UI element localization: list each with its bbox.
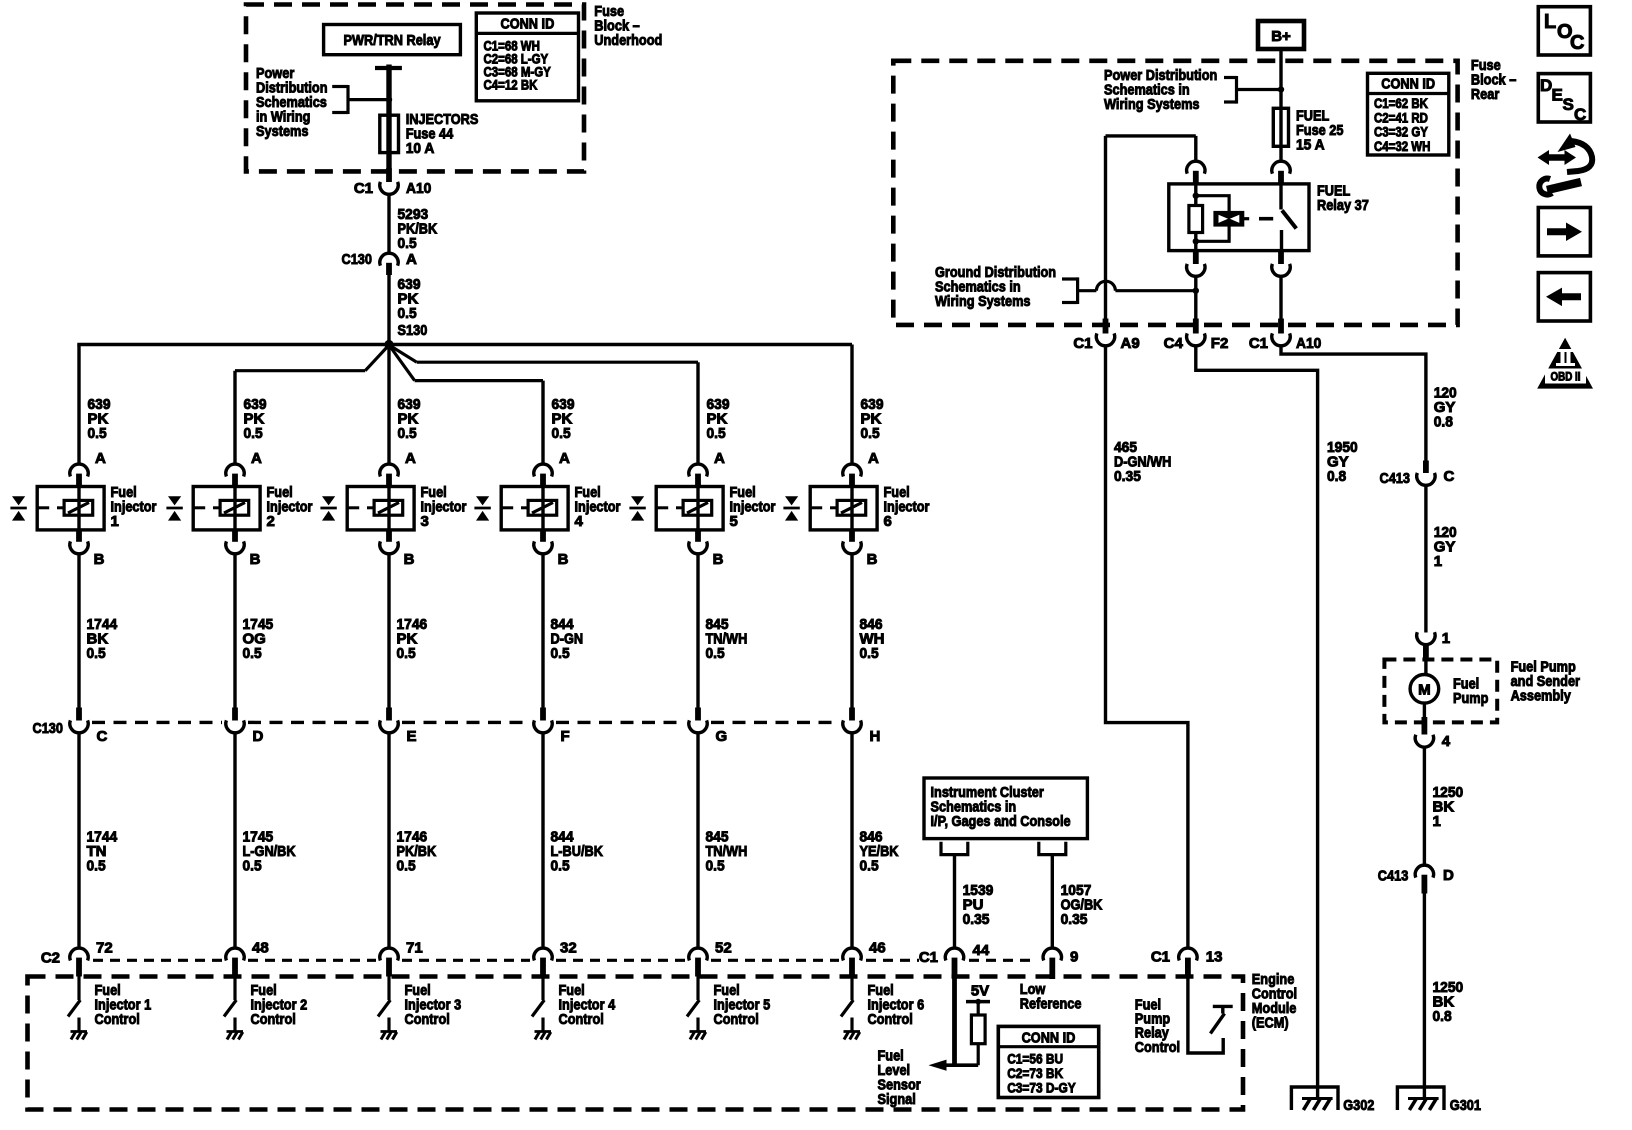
svg-text:S: S [1563, 95, 1574, 114]
svg-text:C413: C413 [1378, 868, 1409, 885]
svg-text:15 A: 15 A [1296, 137, 1325, 154]
svg-text:13: 13 [1206, 949, 1223, 966]
svg-text:Rear: Rear [1471, 86, 1500, 103]
svg-text:B: B [867, 551, 878, 568]
svg-text:0.35: 0.35 [1061, 911, 1088, 928]
svg-text:Relay 37: Relay 37 [1317, 197, 1369, 214]
svg-text:A: A [714, 450, 725, 467]
svg-text:0.5: 0.5 [860, 858, 879, 875]
svg-text:1: 1 [1433, 813, 1441, 830]
svg-text:0.5: 0.5 [397, 858, 416, 875]
svg-text:A10: A10 [1296, 335, 1321, 352]
svg-text:5V: 5V [971, 983, 989, 1000]
svg-text:C: C [1570, 32, 1584, 54]
svg-text:S130: S130 [398, 322, 428, 339]
svg-text:D: D [253, 728, 264, 745]
svg-text:(ECM): (ECM) [1252, 1015, 1289, 1032]
svg-text:0.5: 0.5 [397, 645, 416, 662]
svg-text:C2: C2 [41, 950, 60, 967]
svg-text:1: 1 [1442, 630, 1450, 647]
svg-text:B: B [713, 551, 724, 568]
svg-text:71: 71 [406, 940, 423, 957]
svg-text:E: E [1552, 86, 1563, 105]
svg-text:F: F [561, 728, 570, 745]
svg-text:0.5: 0.5 [706, 645, 725, 662]
svg-text:CONN ID: CONN ID [1022, 1030, 1076, 1047]
svg-text:C1=62 BK: C1=62 BK [1374, 96, 1428, 111]
svg-text:C3=32 GY: C3=32 GY [1374, 125, 1428, 140]
svg-text:0.5: 0.5 [243, 858, 262, 875]
svg-text:C413: C413 [1380, 470, 1411, 487]
svg-text:0.5: 0.5 [243, 645, 262, 662]
svg-text:C1: C1 [354, 180, 373, 197]
svg-text:Control: Control [868, 1011, 913, 1028]
svg-text:C1: C1 [1249, 335, 1268, 352]
svg-text:CONN ID: CONN ID [1381, 76, 1435, 93]
svg-text:Wiring Systems: Wiring Systems [935, 293, 1031, 310]
svg-text:9: 9 [1070, 949, 1078, 966]
svg-text:0.8: 0.8 [1327, 468, 1346, 485]
svg-text:0.5: 0.5 [398, 425, 417, 442]
svg-text:B+: B+ [1271, 28, 1291, 45]
svg-text:52: 52 [715, 940, 732, 957]
svg-text:0.5: 0.5 [861, 425, 880, 442]
svg-text:PWR/TRN Relay: PWR/TRN Relay [343, 32, 441, 49]
svg-text:B: B [404, 551, 415, 568]
svg-text:A9: A9 [1121, 335, 1140, 352]
svg-text:0.5: 0.5 [398, 305, 417, 322]
svg-text:B: B [558, 551, 569, 568]
svg-text:0.5: 0.5 [87, 858, 106, 875]
svg-text:G301: G301 [1450, 1097, 1481, 1114]
svg-text:G: G [716, 728, 728, 745]
svg-text:B: B [94, 551, 105, 568]
svg-text:Assembly: Assembly [1511, 688, 1572, 705]
svg-text:10 A: 10 A [406, 140, 435, 157]
svg-text:C4=32 WH: C4=32 WH [1374, 139, 1430, 154]
svg-text:Control: Control [95, 1011, 140, 1028]
svg-text:0.35: 0.35 [1114, 468, 1141, 485]
svg-text:0.5: 0.5 [87, 645, 106, 662]
svg-text:5: 5 [730, 513, 738, 530]
svg-text:0.5: 0.5 [707, 425, 726, 442]
svg-text:A: A [559, 450, 570, 467]
svg-text:A: A [95, 450, 106, 467]
svg-text:0.5: 0.5 [88, 425, 107, 442]
svg-text:0.5: 0.5 [551, 858, 570, 875]
svg-text:44: 44 [973, 942, 990, 959]
svg-text:1: 1 [111, 513, 119, 530]
svg-text:0.35: 0.35 [963, 911, 990, 928]
svg-text:0.5: 0.5 [551, 645, 570, 662]
svg-text:0.8: 0.8 [1433, 1008, 1452, 1025]
svg-text:D: D [1540, 76, 1552, 95]
svg-text:C130: C130 [342, 251, 373, 268]
svg-text:C3=73 D-GY: C3=73 D-GY [1007, 1079, 1076, 1095]
svg-text:CONN ID: CONN ID [501, 16, 555, 33]
svg-text:B: B [250, 551, 261, 568]
svg-text:C1: C1 [1151, 949, 1170, 966]
svg-text:Control: Control [559, 1011, 604, 1028]
svg-text:Systems: Systems [256, 123, 309, 140]
svg-text:D: D [1443, 867, 1454, 884]
svg-text:0.5: 0.5 [706, 858, 725, 875]
svg-text:0.5: 0.5 [398, 235, 417, 252]
svg-text:C1: C1 [1073, 335, 1092, 352]
svg-text:0.5: 0.5 [552, 425, 571, 442]
svg-text:Control: Control [405, 1011, 450, 1028]
svg-text:C4=12 BK: C4=12 BK [484, 78, 538, 93]
svg-text:3: 3 [421, 513, 429, 530]
svg-text:2: 2 [267, 513, 275, 530]
svg-text:Control: Control [251, 1011, 296, 1028]
svg-text:A10: A10 [406, 180, 431, 197]
svg-text:M: M [1418, 682, 1431, 699]
svg-text:0.8: 0.8 [1434, 414, 1453, 431]
svg-text:A: A [405, 450, 416, 467]
svg-text:G302: G302 [1343, 1097, 1374, 1114]
svg-text:C: C [1574, 105, 1586, 124]
svg-text:C2=41 RD: C2=41 RD [1374, 110, 1428, 125]
svg-text:0.5: 0.5 [860, 645, 879, 662]
svg-text:0.5: 0.5 [244, 425, 263, 442]
svg-text:I/P, Gages and Console: I/P, Gages and Console [931, 813, 1071, 830]
svg-text:H: H [870, 728, 881, 745]
svg-text:4: 4 [1442, 733, 1451, 750]
svg-text:A: A [406, 251, 417, 268]
svg-text:Signal: Signal [878, 1091, 916, 1108]
svg-text:48: 48 [252, 940, 269, 957]
svg-text:4: 4 [575, 513, 584, 530]
svg-text:A: A [251, 450, 262, 467]
svg-text:6: 6 [884, 513, 892, 530]
svg-text:E: E [407, 728, 417, 745]
svg-text:Underhood: Underhood [594, 32, 662, 49]
svg-text:46: 46 [869, 940, 886, 957]
svg-text:Pump: Pump [1453, 690, 1488, 707]
svg-text:1: 1 [1434, 553, 1442, 570]
svg-text:C: C [1444, 468, 1455, 485]
svg-text:72: 72 [96, 940, 113, 957]
svg-text:C4: C4 [1164, 335, 1184, 352]
svg-text:Control: Control [1135, 1039, 1180, 1056]
svg-text:Wiring Systems: Wiring Systems [1104, 96, 1200, 113]
svg-text:F2: F2 [1211, 335, 1229, 352]
svg-text:C: C [97, 728, 108, 745]
svg-text:C130: C130 [33, 720, 64, 737]
svg-text:Reference: Reference [1020, 996, 1082, 1013]
svg-text:A: A [868, 450, 879, 467]
svg-text:Control: Control [714, 1011, 759, 1028]
svg-text:C1: C1 [919, 949, 938, 966]
svg-text:OBD II: OBD II [1551, 372, 1581, 384]
svg-text:L: L [1544, 11, 1556, 33]
svg-text:32: 32 [560, 940, 577, 957]
